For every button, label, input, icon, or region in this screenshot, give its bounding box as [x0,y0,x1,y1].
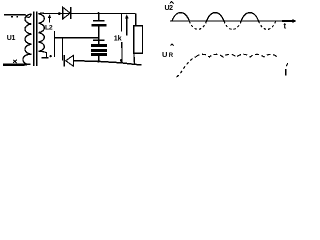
svg-text:U2: U2 [165,5,174,12]
secondary top exit wire [38,12,44,15]
AC source top lead [4,14,26,16]
output charging curve dashed [177,57,197,77]
transformer secondary winding [38,14,44,52]
capacitor C3 [91,49,107,52]
capacitor C1 [93,20,105,22]
wire from bottom lead to primary bottom [24,64,27,66]
junction dot near ground [50,55,52,57]
tick dots under top lead [11,16,18,18]
AC source bottom lead [3,63,25,66]
mid wire from secondary to capacitor column [55,37,99,39]
junction dot cap column top [98,12,100,14]
bottom rail [74,61,142,65]
output voltage arrow [126,18,128,36]
junction dot load branch [120,59,123,62]
sine negative half 1 dashed [189,21,206,29]
time axis top waveform [170,20,292,22]
junction dot on top rail [58,12,61,15]
svg-text:U: U [162,50,167,59]
diode D1 [63,7,70,19]
cap column bottom wire [98,56,100,61]
sine positive half 2 [207,13,224,21]
sine positive half 1 [172,13,189,21]
svg-text:R: R [169,53,174,59]
top rail [45,13,136,15]
x mark on bottom lead [13,60,17,63]
cap column mid wire [98,27,100,44]
riser wire at secondary side [54,31,56,57]
svg-text:U1: U1 [7,35,16,42]
resistor bottom wire [133,53,136,64]
ground bar under secondary [42,57,49,59]
sine negative half 2 dashed [224,21,241,29]
transformer primary winding [23,14,32,64]
load branch wire lower [121,42,123,63]
sine negative half 3 dashed [259,21,276,29]
diode D2 [63,55,65,67]
junction dot cap bottom [97,60,100,63]
top rail corner down to resistor [135,14,137,26]
caret over UR [171,44,174,46]
capacitor column top wire [98,14,100,21]
wire dip into primary top [26,14,32,18]
output ripple dashed [196,54,278,57]
secondary bottom terminal [38,51,46,57]
secondary winding label L2 arrow [49,17,51,23]
svg-text:1k: 1k [114,34,122,43]
capacitor C2 [93,39,105,41]
resistor R 1k box [134,26,143,54]
svg-text:L2: L2 [45,24,53,31]
svg-text:t: t [284,22,287,31]
transformer core [34,12,37,67]
wire down to bottom diode [62,38,64,61]
bottom t tick [286,63,288,66]
load branch wire upper [121,14,123,32]
caret over U2 [170,2,174,4]
axis arrowhead [293,19,297,23]
sine positive half 3 [241,13,258,21]
